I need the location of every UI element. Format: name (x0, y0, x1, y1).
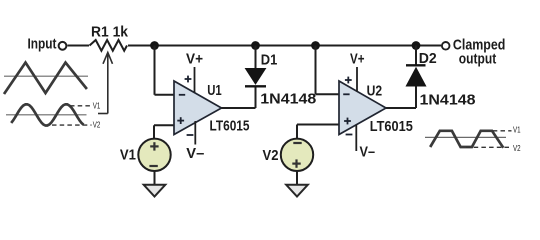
svg-text:V1: V1 (513, 126, 521, 135)
svg-text:V–: V– (360, 144, 376, 161)
svg-text:Input: Input (28, 36, 57, 53)
svg-text:V–: V– (186, 145, 204, 162)
svg-text:1N4148: 1N4148 (260, 91, 316, 108)
svg-text:V2: V2 (93, 121, 101, 130)
svg-text:output: output (459, 50, 496, 67)
svg-text:V1: V1 (120, 147, 136, 164)
svg-text:V+: V+ (350, 50, 365, 67)
svg-text:D2: D2 (419, 50, 437, 67)
svg-text:LT6015: LT6015 (210, 117, 250, 134)
svg-text:1N4148: 1N4148 (420, 92, 476, 109)
svg-text:R1 1k: R1 1k (91, 23, 129, 40)
svg-text:U2: U2 (367, 82, 383, 99)
svg-text:LT6015: LT6015 (370, 118, 413, 135)
svg-text:V2: V2 (513, 144, 521, 153)
svg-text:V1: V1 (93, 101, 101, 110)
svg-text:V2: V2 (263, 147, 279, 164)
svg-text:U1: U1 (207, 82, 222, 99)
svg-text:D1: D1 (261, 51, 278, 68)
svg-text:V+: V+ (186, 50, 203, 67)
